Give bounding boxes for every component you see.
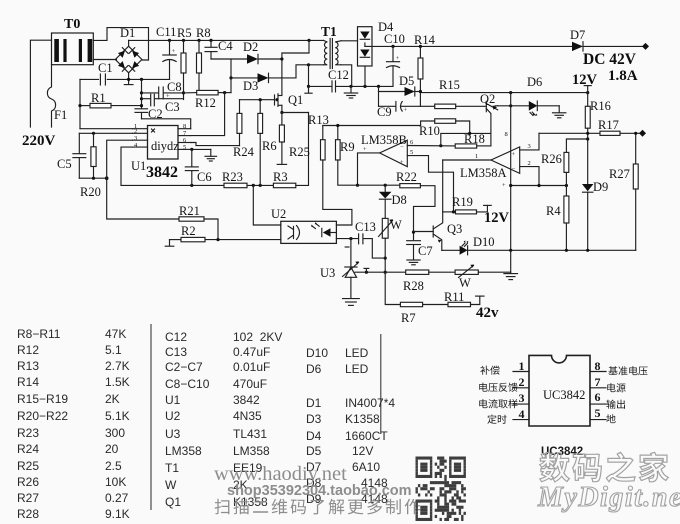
svg-text:D3: D3 <box>306 412 322 426</box>
svg-text:U3: U3 <box>320 266 335 280</box>
svg-text:R13: R13 <box>17 359 39 373</box>
svg-text:www.haodiy.net: www.haodiy.net <box>214 463 347 485</box>
diode D2 <box>211 40 284 64</box>
svg-text:R12: R12 <box>195 96 216 110</box>
wire pin3 feed and drop to R21 <box>107 140 178 219</box>
svg-text:R26: R26 <box>17 475 39 489</box>
svg-text:R9: R9 <box>340 140 355 154</box>
node 42V rail <box>372 45 572 47</box>
PARTS LIST <box>17 327 130 521</box>
resistor R22 <box>358 170 436 240</box>
QR code <box>416 457 466 522</box>
svg-text:T0: T0 <box>64 17 80 32</box>
watermark MyDigit outline <box>540 452 669 482</box>
svg-text:R1: R1 <box>91 91 106 105</box>
capacitor C4 <box>205 39 233 59</box>
svg-text:D10: D10 <box>306 346 328 360</box>
svg-text:R15−R19: R15−R19 <box>17 392 68 406</box>
shunt regulator U3 TL431 <box>320 239 359 306</box>
capacitor C9 electrolytic <box>377 92 420 120</box>
svg-text:3: 3 <box>519 391 525 405</box>
svg-text:LM358A: LM358A <box>460 166 507 180</box>
svg-text:+: + <box>502 182 506 189</box>
capacitor C3 <box>142 94 184 114</box>
svg-text:6A10: 6A10 <box>352 460 380 474</box>
svg-text:9.1K: 9.1K <box>105 507 130 521</box>
svg-text:U3: U3 <box>165 427 181 441</box>
svg-text:Q1: Q1 <box>288 93 303 107</box>
svg-text:5: 5 <box>183 144 186 151</box>
svg-text:C4: C4 <box>218 39 233 53</box>
parts list divider 1 <box>150 324 152 510</box>
svg-text:UC3842: UC3842 <box>543 388 585 402</box>
svg-text:R11: R11 <box>444 290 464 304</box>
resistor R6 <box>258 100 277 186</box>
node bottom bus <box>468 249 636 251</box>
IC U1 UC3842 <box>131 123 191 181</box>
svg-text:diydz: diydz <box>151 139 179 153</box>
resistor R21 <box>179 204 218 240</box>
svg-text:3: 3 <box>528 143 531 150</box>
svg-text:C12: C12 <box>328 68 349 82</box>
svg-text:5.1K: 5.1K <box>105 409 130 423</box>
transistor Q2 <box>480 92 498 133</box>
wire pin4 drop to gnd row <box>121 147 224 185</box>
wire 12V bus vertical x510 <box>510 93 512 251</box>
svg-text:F1: F1 <box>54 108 67 122</box>
svg-text:R18: R18 <box>464 132 485 146</box>
diode D9 <box>582 180 608 250</box>
node R5 bottom junction <box>182 91 185 94</box>
wire pin5 route to R19 node <box>407 156 453 212</box>
resistor R15 <box>420 78 486 109</box>
op-amp LM358B <box>356 133 407 187</box>
resistor R11 <box>444 290 499 321</box>
node minus bus y79 <box>80 78 99 80</box>
node feedback row <box>355 271 406 273</box>
svg-text:102 2KV: 102 2KV <box>233 330 282 344</box>
resistor R19 <box>443 195 510 226</box>
svg-text:2K: 2K <box>105 392 120 406</box>
svg-text:C9: C9 <box>377 105 392 119</box>
resistor R24 <box>233 100 255 159</box>
resistor R27 on 42V return <box>609 132 638 251</box>
wire vcc to pin8 <box>142 119 191 129</box>
wire rail jog down to Q1 drain <box>282 40 309 95</box>
svg-text:8: 8 <box>505 131 508 138</box>
svg-text:2: 2 <box>528 160 531 167</box>
svg-text:W: W <box>165 478 177 492</box>
svg-text:R28: R28 <box>403 279 424 293</box>
svg-text:470uF: 470uF <box>233 377 267 391</box>
capacitor C5 <box>57 133 86 178</box>
resistor R13 <box>308 113 352 225</box>
pin 2 <box>513 387 529 389</box>
svg-text:R10: R10 <box>419 124 440 138</box>
potentiometer W <box>379 218 403 274</box>
svg-text:D4: D4 <box>306 429 322 443</box>
capacitor C6 <box>185 148 211 186</box>
svg-text:D9: D9 <box>593 180 608 194</box>
pin 3 <box>513 403 529 405</box>
resistor R17 <box>598 118 646 137</box>
capacitor C7 <box>407 241 433 265</box>
resistor R3 <box>273 113 309 188</box>
svg-text:C3: C3 <box>165 100 180 114</box>
capacitor C11 electrolytic <box>156 25 176 79</box>
svg-text:T1: T1 <box>165 461 179 475</box>
svg-text:TL431: TL431 <box>233 427 267 441</box>
svg-text:47K: 47K <box>105 327 126 341</box>
capacitor C10 electrolytic <box>384 32 405 86</box>
svg-text:C12: C12 <box>165 330 187 344</box>
svg-text:R14: R14 <box>17 375 39 389</box>
svg-text:3842: 3842 <box>233 393 260 407</box>
svg-text:R5: R5 <box>177 26 192 40</box>
svg-text:D7: D7 <box>570 28 585 42</box>
diode D3 <box>231 63 324 93</box>
wire op-amp A pin2 <box>520 167 539 186</box>
node 12V terminal <box>572 72 598 93</box>
ground pin5 of U1 <box>191 149 217 161</box>
svg-text:7: 7 <box>595 375 601 389</box>
svg-text:300: 300 <box>105 426 125 440</box>
svg-text:C11: C11 <box>156 25 176 39</box>
resistor R5 <box>177 26 192 100</box>
svg-text:D2: D2 <box>243 40 258 54</box>
svg-text:U2: U2 <box>165 409 181 423</box>
svg-text:R8−R11: R8−R11 <box>17 327 61 341</box>
svg-text:D10: D10 <box>473 235 495 249</box>
svg-text:3: 3 <box>134 135 137 142</box>
svg-text:T1: T1 <box>321 24 337 39</box>
optocoupler U2 <box>271 207 336 243</box>
svg-text:R8: R8 <box>196 26 211 40</box>
svg-text:12V: 12V <box>352 444 373 458</box>
ground main <box>504 250 518 279</box>
svg-text:C8−C10: C8−C10 <box>165 377 210 391</box>
pin 5 <box>590 419 606 421</box>
wire pin6 output to R24 <box>191 143 240 146</box>
svg-text:C8: C8 <box>167 80 182 94</box>
svg-text:R21: R21 <box>179 204 200 218</box>
resistor R9 <box>336 126 358 186</box>
pin 6 <box>590 403 606 405</box>
svg-text:0.01uF: 0.01uF <box>233 360 270 374</box>
pin 7 <box>590 387 606 389</box>
svg-text:D5: D5 <box>306 444 322 458</box>
parts list divider 2 <box>380 334 382 434</box>
svg-text:R16: R16 <box>590 99 611 113</box>
svg-text:IN4007*4: IN4007*4 <box>345 396 395 410</box>
svg-text:LED: LED <box>345 346 369 360</box>
svg-text:R7: R7 <box>401 311 416 325</box>
svg-text:C2−C7: C2−C7 <box>165 360 203 374</box>
svg-text:MyDigit.net: MyDigit.net <box>537 482 680 513</box>
wire T0 to bridge AC2 (over-route) <box>93 28 148 60</box>
svg-text:R6: R6 <box>262 139 277 153</box>
wire pin1 feed <box>80 128 133 130</box>
svg-text:R14: R14 <box>414 33 436 47</box>
svg-text:R15: R15 <box>439 78 460 92</box>
transformer T1 <box>321 24 358 86</box>
svg-text:2.5: 2.5 <box>105 459 122 473</box>
node R17 row <box>539 132 600 134</box>
svg-text:R28: R28 <box>17 507 39 521</box>
svg-text:12V: 12V <box>572 72 598 88</box>
capacitor C8 electrolytic <box>142 80 184 100</box>
svg-text:LM358: LM358 <box>165 444 202 458</box>
svg-text:+: + <box>396 55 400 62</box>
svg-text:C13: C13 <box>355 220 376 234</box>
svg-text:R3: R3 <box>273 170 288 184</box>
svg-text:R26: R26 <box>541 152 562 166</box>
svg-text:LED: LED <box>345 362 369 376</box>
capacitor C2 <box>135 107 163 121</box>
UC3842 PINOUT <box>479 355 647 458</box>
svg-text:1.8A: 1.8A <box>608 68 638 84</box>
resistor R12 <box>195 90 231 110</box>
svg-text:2.7K: 2.7K <box>105 359 130 373</box>
node comparator ref row <box>511 185 567 187</box>
wire C5/R20 bottom <box>79 177 106 179</box>
svg-text:8: 8 <box>183 123 186 130</box>
svg-text:0.47uF: 0.47uF <box>233 345 270 359</box>
svg-text:5.1: 5.1 <box>105 343 122 357</box>
svg-text:K1358: K1358 <box>345 412 380 426</box>
svg-text:LM358: LM358 <box>233 444 270 458</box>
transformer T0 (line filter) <box>52 17 94 65</box>
resistor R2 <box>165 224 281 246</box>
resistor R18 with feedback loop <box>441 132 491 148</box>
svg-text:+: + <box>400 159 404 166</box>
svg-text:2: 2 <box>519 375 525 389</box>
svg-text:C13: C13 <box>165 345 187 359</box>
resistor R10 <box>419 119 470 138</box>
svg-text:10K: 10K <box>105 475 126 489</box>
svg-text:−: − <box>512 166 516 173</box>
diode D4 dual rectifier <box>358 20 395 86</box>
node drops to optocoupler <box>252 184 255 187</box>
resistor R1 <box>80 91 142 108</box>
wire gate row <box>240 99 275 101</box>
svg-text:R24: R24 <box>233 145 255 159</box>
svg-text:+: + <box>172 48 176 55</box>
svg-text:R20−R22: R20−R22 <box>17 409 68 423</box>
diode D7 output <box>570 28 649 51</box>
svg-text:D6: D6 <box>306 362 322 376</box>
svg-text:R13: R13 <box>308 113 329 127</box>
node 12V aux row A <box>420 92 587 94</box>
svg-text:R17: R17 <box>598 118 619 132</box>
resistor R16 <box>585 93 611 184</box>
resistor R4 <box>546 186 569 251</box>
svg-text:20: 20 <box>105 442 119 456</box>
svg-text:1: 1 <box>475 153 478 160</box>
IC body UC3842 <box>529 355 590 426</box>
wire bridge plus stub <box>128 40 130 46</box>
svg-text:R24: R24 <box>17 442 39 456</box>
svg-text:R25: R25 <box>289 145 310 159</box>
wire vcc vertical x141 <box>141 79 143 108</box>
wire pin2 feed from C5/R20 <box>79 132 132 134</box>
svg-text:4N35: 4N35 <box>233 409 262 423</box>
svg-text:3842: 3842 <box>146 164 178 181</box>
svg-text:Q3: Q3 <box>447 222 462 236</box>
svg-text:R2: R2 <box>181 224 196 238</box>
svg-text:R12: R12 <box>17 343 39 357</box>
capacitor C13 <box>336 220 385 258</box>
fuse F1 <box>47 65 67 127</box>
svg-text:R20: R20 <box>80 185 101 199</box>
svg-text:Q2: Q2 <box>480 92 495 106</box>
svg-text:Q1: Q1 <box>165 495 181 509</box>
wire T0 to bridge AC1 <box>93 59 116 61</box>
wire pin7 riser <box>191 93 225 136</box>
diode D8 <box>379 185 407 218</box>
svg-text:R22: R22 <box>396 170 417 184</box>
resistor R28 <box>403 270 455 293</box>
wire bridge minus stub <box>128 73 130 80</box>
svg-text:U1: U1 <box>131 159 146 173</box>
resistor R8 <box>196 26 211 93</box>
wire R12 riser to D2/D3 <box>230 59 232 93</box>
wire secondary gnd row <box>351 85 393 87</box>
svg-text:R19: R19 <box>452 195 473 209</box>
svg-text:R23: R23 <box>17 426 39 440</box>
svg-text:R27: R27 <box>609 167 630 181</box>
pin 8 <box>590 371 606 373</box>
svg-text:5: 5 <box>410 149 413 156</box>
wire pin6 inverting row to R18 <box>407 145 455 147</box>
svg-text:1660CT: 1660CT <box>345 429 388 443</box>
svg-text:C6: C6 <box>197 170 212 184</box>
svg-text:LM358B: LM358B <box>361 133 407 147</box>
svg-text:D3: D3 <box>243 79 258 93</box>
svg-text:+: + <box>363 146 367 153</box>
potentiometer W2 <box>455 265 511 291</box>
bridge rectifier D1 <box>115 26 142 73</box>
diode D5 <box>379 74 421 96</box>
wire op-amp A output drop <box>442 160 444 212</box>
svg-text:1: 1 <box>519 359 525 373</box>
svg-text:+: + <box>512 151 516 158</box>
resistor R25 <box>277 111 310 164</box>
ground terminal under bridge <box>124 79 133 84</box>
resistor R23 <box>222 170 273 188</box>
capacitor C12 snubber <box>305 65 351 93</box>
svg-text:U1: U1 <box>165 393 181 407</box>
ground at C12 <box>344 85 357 98</box>
svg-text:U2: U2 <box>271 207 286 221</box>
svg-text:R4: R4 <box>546 204 561 218</box>
svg-text:D5: D5 <box>399 74 414 88</box>
svg-text:6: 6 <box>595 390 601 404</box>
resistor R20 <box>80 133 101 199</box>
svg-text:C10: C10 <box>384 32 405 46</box>
svg-text:42v: 42v <box>476 305 499 321</box>
wire 220V live input <box>30 40 51 127</box>
svg-text:0.27: 0.27 <box>105 491 129 505</box>
wire R13/R9 top row <box>323 125 421 127</box>
transistor Q3 <box>414 212 463 250</box>
resistor R26 <box>541 137 589 185</box>
svg-text:DC 42V: DC 42V <box>583 51 637 68</box>
pin 1 <box>513 371 529 373</box>
diode D10 LED <box>442 235 495 255</box>
svg-text:R27: R27 <box>17 491 39 505</box>
node DC plus rail <box>129 39 324 41</box>
svg-text:W: W <box>459 276 471 290</box>
svg-text:C5: C5 <box>57 157 72 171</box>
capacitor C1 <box>98 61 113 85</box>
svg-text:C7: C7 <box>418 244 433 258</box>
wire left vertical x80 <box>79 79 81 128</box>
svg-text:W: W <box>390 218 402 232</box>
svg-text:220V: 220V <box>22 133 56 149</box>
svg-text:1.5K: 1.5K <box>105 375 130 389</box>
svg-text:5: 5 <box>595 406 601 420</box>
svg-text:D1: D1 <box>120 26 135 40</box>
diode D6 with ground <box>498 75 566 118</box>
svg-text:R25: R25 <box>17 459 39 473</box>
svg-text:4: 4 <box>519 407 525 421</box>
resistor R14 <box>414 33 436 106</box>
svg-text:8: 8 <box>595 359 601 373</box>
pin 4 <box>513 419 529 421</box>
svg-text:+: + <box>404 107 408 114</box>
resistor R7 <box>385 272 448 325</box>
svg-text:D1: D1 <box>306 396 322 410</box>
transistor Q1 MOSFET <box>275 93 304 113</box>
svg-text:2: 2 <box>134 128 137 135</box>
svg-text:D8: D8 <box>392 193 407 207</box>
svg-text:shop35392304.taobao.com: shop35392304.taobao.com <box>227 483 412 499</box>
svg-text:12V: 12V <box>484 210 510 226</box>
svg-text:R23: R23 <box>222 170 243 184</box>
svg-text:D6: D6 <box>527 75 542 89</box>
op-amp LM358A <box>443 147 520 180</box>
svg-text:C1: C1 <box>98 61 113 75</box>
wire op-amp A pin3 <box>520 133 539 150</box>
